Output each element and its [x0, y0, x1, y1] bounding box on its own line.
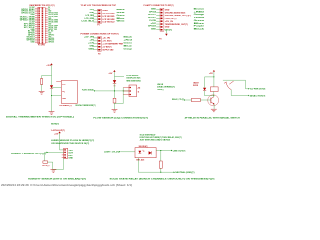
svg-text:+5V: +5V	[90, 9, 95, 11]
svg-text:GPIO4: GPIO4	[149, 10, 157, 13]
svg-text:VLV PWR OUT(?): VLV PWR OUT(?)	[250, 89, 266, 91]
svg-text:+5V(?): +5V(?)	[165, 29, 172, 31]
svg-text:HUMIDITY SENSOR OUT(?)(?): HUMIDITY SENSOR OUT(?)(?)	[11, 153, 46, 155]
svg-text:1-4 PULLUP(?): 1-4 PULLUP(?)	[51, 129, 65, 132]
svg-text:+5V_IN(?): +5V_IN(?)	[102, 41, 111, 43]
svg-text:+5V: +5V	[90, 40, 95, 42]
svg-text:DIGITAL THERMOMETER THINGY(?): DIGITAL THERMOMETER THINGY(?) (OPTIONAL)	[6, 115, 74, 118]
svg-text:LCD_BLU: LCD_BLU	[82, 21, 95, 23]
svg-text:+5V LCD PWR: +5V LCD PWR	[102, 13, 114, 15]
svg-text:Blue: Blue	[124, 45, 134, 47]
svg-text:1: 1	[137, 91, 139, 93]
svg-text:Black: Black	[194, 28, 206, 30]
svg-text:LINE OUT(?): LINE OUT(?)	[173, 150, 186, 152]
svg-text:J2: J2	[137, 88, 140, 90]
svg-text:DIODE: DIODE	[193, 85, 199, 87]
svg-text:GND: GND	[165, 27, 170, 29]
svg-text:DQ: DQ	[62, 91, 65, 93]
svg-text:DS18B20(?): DS18B20(?)	[60, 105, 72, 107]
svg-text:+5V_IN: +5V_IN	[165, 21, 174, 23]
svg-text:Black: Black	[124, 37, 134, 39]
svg-text:NOTE(?): NOTE(?)	[51, 123, 59, 125]
svg-text:TO 4P LCD TOUCHSCREEN ON TOP: TO 4P LCD TOUCHSCREEN ON TOP	[81, 4, 117, 7]
svg-text:+3V3: +3V3	[46, 65, 51, 67]
svg-text:HUMID SENSOR PLUGS IN HERE(?)(: HUMID SENSOR PLUGS IN HERE(?)(?)	[51, 140, 94, 142]
svg-text:Blue: Blue	[117, 18, 126, 20]
svg-text:LIGHT_CTL(?): LIGHT_CTL(?)	[104, 152, 119, 154]
svg-text:GND: GND	[31, 42, 36, 44]
svg-text:Orange: Orange	[194, 13, 206, 16]
svg-text:LCD VID BLU: LCD VID BLU	[102, 22, 114, 24]
svg-text:+3.3V: +3.3V	[88, 43, 95, 45]
svg-text:LCD_GRN: LCD_GRN	[85, 18, 95, 20]
svg-text:RELAY_CTL(?): RELAY_CTL(?)	[172, 98, 184, 101]
svg-text:GROUND_SENSE_OUT(?)(?): GROUND_SENSE_OUT(?)(?)	[165, 15, 191, 17]
svg-text:SSR_A(?): SSR_A(?)	[136, 159, 144, 162]
svg-text:FLOW_OUT(?): FLOW_OUT(?)	[165, 18, 177, 20]
svg-text:OR WHATEVER THE DEVICE IS(?): OR WHATEVER THE DEVICE IS(?)	[51, 142, 89, 145]
svg-text:P1: P1	[97, 25, 99, 27]
svg-text:GPIO22: GPIO22	[148, 26, 157, 28]
svg-text:PI_GPIO: PI_GPIO	[38, 44, 46, 46]
svg-text:P-HAPPY CONNECTOR TO RPI(?): P-HAPPY CONNECTOR TO RPI(?)	[144, 4, 174, 7]
svg-text:DIGITAL THERMOSTAT(?): DIGITAL THERMOSTAT(?)	[76, 104, 96, 107]
svg-text:TEMPERATURE_OUT(?): TEMPERATURE_OUT(?)	[165, 23, 188, 26]
svg-text:GND: GND	[165, 10, 170, 12]
svg-text:NEUTRAL (GND)(?): NEUTRAL (GND)(?)	[175, 171, 194, 174]
svg-text:Blue: Blue	[194, 23, 206, 25]
svg-text:P2: P2	[98, 54, 100, 56]
svg-text:+5V: +5V	[108, 73, 113, 75]
svg-text:SUPPLY GND: SUPPLY GND	[102, 49, 113, 51]
svg-text:GND: GND	[62, 98, 66, 100]
svg-text:FLOW_SIGNAL: FLOW_SIGNAL	[82, 89, 95, 92]
svg-text:GND: GND	[151, 9, 157, 11]
svg-text:2024/09/14 23:29:28 C:\Users\: 2024/09/14 23:29:28 C:\Users\James\Docum…	[1, 184, 132, 187]
svg-text:+5V: +5V	[150, 23, 156, 25]
svg-text:SOLID STATE RELAY (BUNCH CHANN: SOLID STATE RELAY (BUNCH CHANNELS OBVIOU…	[110, 178, 215, 181]
svg-text:Yellow: Yellow	[194, 17, 205, 19]
svg-text:VALVE: VALVE	[157, 83, 164, 86]
svg-text:GPIO27: GPIO27	[148, 17, 157, 19]
svg-text:DHT11(?): DHT11(?)	[42, 165, 49, 167]
svg-text:24VAC HOT(?): 24VAC HOT(?)	[250, 94, 266, 97]
svg-text:Brown: Brown	[194, 8, 206, 11]
svg-text:Green: Green	[124, 42, 134, 45]
svg-text:Green: Green	[117, 14, 126, 17]
svg-text:+RED: +RED	[194, 11, 205, 13]
svg-text:P3: P3	[159, 38, 162, 40]
svg-text:GND: GND	[68, 158, 73, 160]
svg-text:+5V: +5V	[54, 133, 59, 135]
svg-text:HUMIDITY SENSOR (DHT11 OR SIMI: HUMIDITY SENSOR (DHT11 OR SIMILAR)(?)(?)	[28, 177, 86, 180]
svg-text:+3.3V RASPBERRY PWR: +3.3V RASPBERRY PWR	[102, 43, 123, 46]
svg-text:GND: GND	[89, 48, 95, 50]
svg-text:Purple: Purple	[194, 25, 206, 28]
svg-text:Green: Green	[194, 19, 206, 22]
svg-text:JUST SWITCHED LINE(?) OBVS(?): JUST SWITCHED LINE(?) OBVS(?)	[140, 140, 171, 142]
svg-text:+5V_VIN: +5V_VIN	[84, 37, 95, 39]
svg-text:+5V: +5V	[209, 73, 214, 75]
svg-text:Orange: Orange	[124, 47, 133, 50]
svg-text:VCC: VCC	[62, 84, 66, 86]
svg-text:+Red: +Red	[124, 40, 134, 42]
svg-text:GND: GND	[90, 45, 95, 47]
svg-text:GROUND ADDED B4(?): GROUND ADDED B4(?)	[165, 11, 186, 14]
svg-text:FLOW SENSOR (LIQ) CONNECTIONS(: FLOW SENSOR (LIQ) CONNECTIONS(?)(?)	[93, 117, 148, 119]
svg-text:GND: GND	[151, 28, 157, 30]
svg-text:LCD VID GRN: LCD VID GRN	[102, 19, 114, 21]
svg-text:FLOW: FLOW	[149, 20, 156, 22]
svg-text:GND: GND	[102, 10, 108, 12]
svg-text:POWER CONNECTIONS UP TOP(?): POWER CONNECTIONS UP TOP(?)	[81, 33, 119, 35]
svg-text:GOES(?): GOES(?)	[157, 89, 164, 91]
svg-text:Red: Red	[117, 12, 126, 14]
svg-text:SSR-25DA(?): SSR-25DA(?)	[139, 145, 148, 148]
svg-text:4P RELAY IN PARALLEL WITH MANU: 4P RELAY IN PARALLEL WITH MANUAL SWITCH	[185, 116, 241, 119]
svg-text:+5_IN: +5_IN	[102, 38, 110, 40]
svg-text:White: White	[117, 20, 126, 23]
svg-text:GPIO21: GPIO21	[48, 42, 55, 44]
svg-text:LCD_RED: LCD_RED	[86, 15, 95, 17]
svg-text:Black: Black	[117, 9, 126, 11]
svg-text:LCD VID RED: LCD VID RED	[102, 16, 114, 18]
svg-text:GND: GND	[90, 12, 95, 14]
svg-text:GPIO17: GPIO17	[148, 14, 157, 16]
svg-text:HERE SOMEHOW(?): HERE SOMEHOW(?)	[126, 80, 141, 82]
svg-text:+5V BUS(?): +5V BUS(?)	[102, 46, 111, 48]
